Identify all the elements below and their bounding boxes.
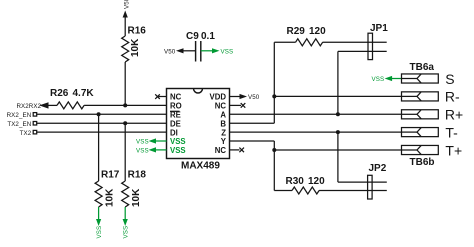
svg-text:A: A xyxy=(220,111,226,120)
svg-text:VSS: VSS xyxy=(96,226,103,239)
no-connect X on pin 1 xyxy=(155,94,160,99)
pin label RE with overline xyxy=(170,111,181,120)
svg-text:T+: T+ xyxy=(445,142,462,158)
svg-text:R+: R+ xyxy=(445,107,463,123)
resistor R26 xyxy=(50,88,94,109)
svg-text:TB6b: TB6b xyxy=(410,157,435,168)
svg-text:Y: Y xyxy=(221,137,227,146)
svg-text:DE: DE xyxy=(170,119,181,128)
capacitor C9 xyxy=(186,31,215,62)
resistor R30 xyxy=(286,176,326,194)
svg-text:R-: R- xyxy=(445,89,460,105)
wire R29 right through JP1 xyxy=(323,41,387,43)
port TX2_EN xyxy=(7,121,36,128)
power VSS arrow right of C9 xyxy=(201,48,233,55)
wire Y pin to riser xyxy=(230,140,275,142)
svg-text:JP2: JP2 xyxy=(369,163,387,174)
wire riser B up to R29 xyxy=(273,42,275,123)
svg-text:10K: 10K xyxy=(130,38,141,57)
svg-text:10K: 10K xyxy=(131,188,142,207)
wire R- line to terminal xyxy=(274,95,401,97)
svg-text:10K: 10K xyxy=(105,188,116,207)
wire RX2_EN to RE pin xyxy=(37,113,167,115)
no-connect X right pin 7 xyxy=(239,148,244,153)
svg-text:NC: NC xyxy=(215,102,227,111)
svg-text:VSS: VSS xyxy=(372,76,385,83)
svg-text:T-: T- xyxy=(445,124,458,140)
port RX2_EN xyxy=(7,112,37,119)
svg-text:V50: V50 xyxy=(123,0,130,9)
power VSS arrow at pin 7 xyxy=(136,147,167,154)
svg-text:B: B xyxy=(220,119,226,128)
svg-text:C90.1: C90.1 xyxy=(186,31,215,42)
power V50 arrow above R16 xyxy=(123,0,131,36)
wire TX2_EN to DE pin xyxy=(37,122,167,124)
svg-text:R16: R16 xyxy=(128,26,147,37)
wire JP1 pin2 down to R+ xyxy=(337,51,339,114)
jumper JP2 xyxy=(368,163,387,199)
pin NC right 7 stub xyxy=(230,149,240,151)
terminal R- xyxy=(402,89,461,105)
wire JP2 pin2 up to T- xyxy=(337,132,339,182)
svg-text:TB6a: TB6a xyxy=(410,62,435,73)
wire R16 bottom to RX2 line xyxy=(124,62,126,105)
power VSS arrow at S terminal xyxy=(372,76,402,83)
pin NC right 2 stub xyxy=(230,104,242,106)
node junction R17/RX2_EN xyxy=(97,112,101,116)
svg-text:V50: V50 xyxy=(164,49,176,56)
terminal S xyxy=(402,71,455,87)
svg-text:V50: V50 xyxy=(248,94,260,101)
wire R29 left xyxy=(274,41,295,43)
svg-text:R17: R17 xyxy=(101,170,120,181)
wire JP1 pin2 stub xyxy=(338,50,387,52)
svg-text:RO: RO xyxy=(170,102,182,111)
power V50 arrow left of C9 xyxy=(164,48,196,55)
wire B pin to riser xyxy=(230,122,275,124)
svg-text:VSS: VSS xyxy=(123,226,130,239)
svg-text:NC: NC xyxy=(170,93,182,102)
jumper JP1 xyxy=(368,23,388,60)
resistor R17 xyxy=(95,170,120,208)
wire RX2_EN down to R17 xyxy=(98,114,100,181)
node junction JP1/R+ xyxy=(336,112,340,116)
wire A pin to R+ terminal xyxy=(230,113,402,115)
node junction JP2/T- xyxy=(336,130,340,134)
power VSS arrow at pin 6 xyxy=(136,138,167,145)
power VSS arrow below R18 xyxy=(123,207,130,239)
svg-text:VSS: VSS xyxy=(136,148,149,155)
svg-text:VSS: VSS xyxy=(136,139,149,146)
terminal T- xyxy=(402,124,459,140)
terminal R+ xyxy=(402,107,464,123)
resistor R16 xyxy=(122,26,147,62)
svg-text:RX2: RX2 xyxy=(29,103,42,110)
svg-text:RX2_EN: RX2_EN xyxy=(7,112,32,119)
wire R30 right through JP2 xyxy=(319,190,387,192)
svg-text:JP1: JP1 xyxy=(370,23,388,34)
pin NC left pin 1 stub xyxy=(159,96,167,98)
port TX2 xyxy=(20,130,37,137)
svg-text:VDD: VDD xyxy=(210,93,227,102)
svg-text:VSS: VSS xyxy=(170,137,186,146)
wire R30 left xyxy=(274,190,292,192)
svg-text:VSS: VSS xyxy=(170,146,186,155)
node junction T+/riser xyxy=(272,148,276,152)
svg-text:DI: DI xyxy=(170,128,178,137)
svg-text:Z: Z xyxy=(221,128,226,137)
resistor R29 xyxy=(287,26,327,46)
wire T+ line to terminal xyxy=(274,149,401,151)
svg-text:S: S xyxy=(445,71,454,87)
svg-text:R264.7K: R264.7K xyxy=(50,88,94,99)
op-amp U1 MAX489 body xyxy=(167,89,230,172)
svg-text:RX2: RX2 xyxy=(16,103,29,110)
node junction R18/TX2_EN xyxy=(123,121,127,125)
wire JP2 pin2 stub xyxy=(338,181,387,183)
power VSS arrow below R17 xyxy=(96,207,103,239)
svg-text:NC: NC xyxy=(215,146,227,155)
svg-text:MAX489: MAX489 xyxy=(181,161,220,172)
svg-text:VSS: VSS xyxy=(221,49,234,56)
resistor R18 xyxy=(122,170,147,208)
terminal T+ xyxy=(402,142,463,158)
power V50 arrow at VDD pin xyxy=(230,94,260,101)
port RX2 label with arrow xyxy=(16,102,48,110)
wire RX2 to R26 xyxy=(46,104,57,106)
no-connect X right pin 2 xyxy=(241,103,246,108)
node junction R-/riser xyxy=(272,94,276,98)
wire TX2_EN down to R18 xyxy=(124,123,126,181)
svg-text:TX2_EN: TX2_EN xyxy=(7,121,31,128)
wire Z pin to T- terminal xyxy=(230,131,402,133)
wire R26 to RO pin xyxy=(84,104,166,106)
svg-text:TX2: TX2 xyxy=(20,130,32,137)
wire riser Y down to R30 xyxy=(273,141,275,191)
svg-text:R18: R18 xyxy=(128,170,147,181)
wire TX2 to DI pin xyxy=(37,131,167,133)
node junction R16/RX2 xyxy=(123,103,127,107)
